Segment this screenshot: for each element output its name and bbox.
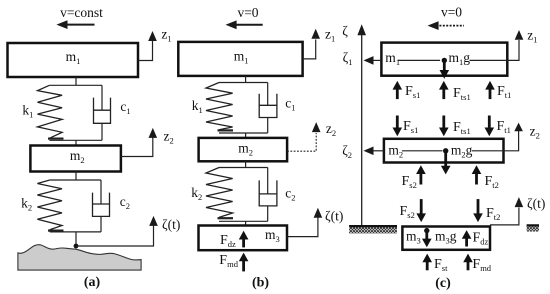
- mass m1 (b): [178, 42, 302, 76]
- force arrow Fdz up inside m3 (c): [462, 230, 472, 246]
- label zeta1 (c): [343, 50, 353, 67]
- damper c2 (b): [259, 168, 277, 222]
- axis arrow z2 (c): [514, 123, 540, 141]
- label v=const (a): [60, 5, 103, 20]
- axis arrow zeta(t) (a): [149, 216, 180, 232]
- label Fmd (b): [219, 253, 238, 269]
- label m3 (c): [406, 229, 421, 246]
- label c1 (b): [285, 96, 295, 113]
- force arrow Fmd (b): [239, 253, 249, 272]
- axis arrow z1 (b): [311, 26, 335, 43]
- ground left (c): [349, 226, 397, 233]
- wire m3 to zeta(t) arrow (c): [490, 208, 519, 225]
- label Fts1 above m2 (c): [453, 120, 471, 136]
- wire bottom connector spring-damper (a): [49, 140, 102, 145]
- spring k2 (a): [37, 180, 63, 231]
- force arrow Ft2 down above m3 (c): [473, 199, 483, 222]
- wire m1 bottom stem (b): [245, 76, 247, 83]
- label Fs2 above m3 (c): [400, 204, 415, 220]
- label Ft1 above m2 (c): [497, 119, 511, 135]
- center of gravity dot m1 (c): [442, 58, 447, 63]
- wire m1g to box edge (c): [470, 59, 508, 61]
- caption (c): [435, 276, 451, 291]
- force arrow Fs2 up below m2 (c): [416, 165, 426, 184]
- zeta axis (c): [357, 24, 366, 226]
- label Fst (c): [434, 257, 448, 273]
- velocity arrow (b): [226, 20, 263, 29]
- wire m1 to z1 arrow (b): [303, 40, 316, 59]
- spring k2 (b): [206, 168, 233, 219]
- axis arrow z2 (b): [312, 121, 336, 138]
- wire m2 bottom stem (a): [75, 172, 77, 181]
- force arrow Fs1 down (c): [393, 116, 403, 137]
- damper c1 (a): [94, 85, 111, 140]
- svg-text:v=const: v=const: [60, 5, 103, 20]
- wire m1 bottom stem (a): [75, 77, 77, 85]
- svg-text:(b): (b): [252, 276, 269, 291]
- label Fdz (c): [473, 230, 489, 246]
- position arrow to zeta axis from m1 (c): [364, 56, 382, 65]
- svg-text:v=0: v=0: [237, 5, 258, 20]
- svg-text:ζ(t): ζ(t): [527, 196, 545, 211]
- spring k1 (a): [38, 85, 64, 138]
- force arrow Fdz (b): [239, 231, 249, 248]
- svg-text:(a): (a): [84, 275, 101, 290]
- wire top connector spring2-damper2 (b): [219, 167, 268, 169]
- wire top connector spring2-damper2 (a): [50, 179, 101, 181]
- road surface (a): [18, 245, 141, 270]
- label m3 (b): [265, 227, 280, 244]
- wire m1 to z1 arrow (c): [507, 40, 519, 60]
- wire m1 to z1 arrow (a): [138, 41, 153, 61]
- label Fts1 below m1 (c): [453, 86, 471, 102]
- mass m3 box (c): [402, 227, 490, 250]
- mass m3 box (b): [199, 226, 288, 251]
- label m1g (c): [449, 50, 471, 67]
- svg-text:ζ(t): ζ(t): [162, 217, 180, 232]
- wire m1 to center of gravity (c): [399, 59, 441, 61]
- force arrow Fts1 down (c): [439, 116, 449, 137]
- label m1 (c): [385, 50, 400, 67]
- wire top connector spring-damper (a): [49, 84, 102, 86]
- svg-text:v=0: v=0: [441, 5, 462, 20]
- damper c1 (b): [259, 83, 277, 134]
- position arrow to zeta axis from m2 (c): [364, 147, 384, 156]
- wire m2 to z2 arrow (c): [504, 131, 519, 151]
- mass m1 (a): [8, 43, 139, 77]
- wire bottom connector spring2-damper2 (b): [219, 221, 268, 225]
- svg-text:ζ: ζ: [342, 24, 348, 39]
- axis arrow zeta(t) (c): [515, 196, 546, 211]
- spring k1 (b): [206, 83, 233, 131]
- weight arrow m3g (c): [422, 233, 432, 248]
- axis arrow z1 (c): [515, 28, 538, 45]
- label Fs1 below m1 (c): [405, 84, 420, 100]
- wire m2 to z2 arrow (a): [121, 138, 153, 157]
- label k1 (a): [22, 102, 33, 119]
- wire road node to zeta(t) arrow (a): [76, 225, 154, 247]
- label v=0 (b): [237, 5, 258, 20]
- label Fs1 above m2 (c): [403, 119, 418, 135]
- svg-text:(c): (c): [435, 276, 451, 291]
- label zeta2 (c): [342, 143, 352, 160]
- label m3g (c): [435, 229, 457, 246]
- wire m2 to center of gravity (c): [402, 150, 443, 152]
- weight arrow m1g (c): [440, 63, 450, 79]
- wire m2 bottom stem (b): [245, 161, 247, 167]
- axis arrow z1 (a): [148, 27, 171, 44]
- velocity arrow dashed (c): [428, 21, 465, 30]
- contact node on road (a): [74, 244, 79, 249]
- force arrow Ft2 up below m2 (c): [472, 165, 482, 184]
- label m2g (c): [451, 142, 473, 159]
- label Ft1 below m1 (c): [497, 84, 511, 100]
- mass m2 box (c): [384, 139, 504, 163]
- force arrow Fs2 down above m3 (c): [416, 199, 426, 222]
- label Fmd (c): [472, 257, 491, 273]
- force arrow Fts1 up (c): [439, 81, 449, 99]
- label c2 (a): [120, 194, 130, 211]
- label Fs2 below m2 (c): [402, 174, 417, 190]
- wire bottom connector spring-damper (b): [219, 133, 268, 138]
- axis arrow z2 (a): [149, 128, 174, 146]
- caption (a): [84, 275, 101, 290]
- force arrow Fs1 up (c): [393, 81, 403, 99]
- mass m1 box (c): [381, 43, 507, 76]
- wire m2 to z2 arrow dashed (b): [287, 133, 316, 151]
- wire top connector spring-damper (b): [219, 82, 268, 84]
- wire bottom connector spring2-damper2 (a): [50, 232, 101, 246]
- ground right mark (c): [527, 226, 539, 232]
- force arrow Ft1 down (c): [485, 116, 495, 137]
- wire m3 to zeta(t) arrow (b): [287, 218, 318, 237]
- label k1 (b): [192, 98, 203, 115]
- center of gravity dot m2 (c): [443, 148, 448, 153]
- force arrow Fst up below m3 (c): [422, 254, 432, 271]
- mass m2 (a): [30, 146, 121, 172]
- velocity arrow (a): [56, 20, 94, 29]
- label c1 (a): [120, 99, 130, 116]
- force arrow Ft1 up (c): [485, 81, 495, 99]
- mass m2 (b): [199, 138, 288, 161]
- label Ft2 above m3 (c): [486, 206, 500, 222]
- label c2 (b): [285, 186, 295, 203]
- label Ft2 below m2 (c): [485, 174, 499, 190]
- damper c2 (a): [93, 180, 110, 232]
- center of gravity dot m3 (c): [424, 228, 429, 233]
- label k2 (b): [191, 185, 202, 202]
- label m2 (c): [388, 142, 403, 159]
- label k2 (a): [21, 195, 32, 212]
- caption (b): [252, 276, 269, 291]
- wire m2g to box edge (c): [472, 150, 504, 152]
- label v=0 (c): [441, 5, 462, 20]
- force arrow Fmd up below m3 (c): [463, 254, 473, 271]
- axis arrow zeta(t) (b): [314, 208, 344, 224]
- svg-text:ζ(t): ζ(t): [325, 208, 343, 223]
- weight arrow m2g (c): [441, 153, 451, 174]
- label Fdz (b): [220, 233, 236, 249]
- label zeta (c): [342, 24, 348, 39]
